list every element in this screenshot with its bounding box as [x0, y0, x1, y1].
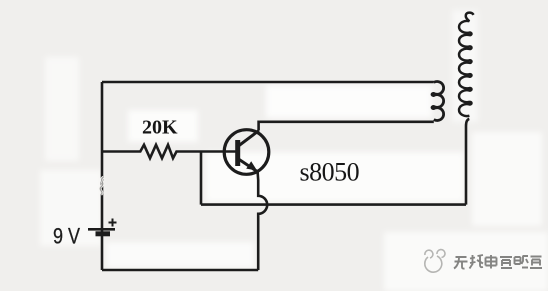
- wire left vertical: [101, 82, 104, 270]
- watermark text 无线电实验室: [454, 255, 542, 269]
- transistor base bar: [235, 140, 240, 166]
- wire base junction vertical: [200, 152, 203, 205]
- wire emitter down with hop: [258, 172, 268, 270]
- wire bottom (battery- to emitter): [102, 269, 258, 272]
- svg-text:9 V: 9 V: [53, 225, 81, 249]
- wire collector to primary bottom: [259, 122, 434, 131]
- wire artifact squiggle on left wire: [100, 177, 103, 195]
- wire feedback right vertical to secondary bottom: [466, 119, 469, 205]
- svg-text:20K: 20K: [142, 117, 178, 139]
- wire feedback horizontal: [201, 203, 466, 206]
- transistor collector lead: [238, 131, 259, 147]
- svg-text:s8050: s8050: [300, 157, 360, 186]
- battery negative plate: [96, 231, 111, 236]
- transistor body circle: [224, 130, 269, 175]
- battery positive plate: [88, 228, 115, 231]
- watermark logo: [425, 250, 445, 273]
- transistor emitter arrow: [246, 161, 257, 170]
- battery B1 9V: [88, 219, 117, 234]
- inductor L1 primary coil: [432, 82, 444, 121]
- transistor Q1 s8050: [224, 130, 269, 175]
- resistor R 20K: [102, 145, 237, 158]
- transistor emitter lead: [238, 159, 258, 172]
- wire top (battery+ to primary top): [102, 81, 434, 84]
- inductor L2 secondary coil: [459, 13, 474, 116]
- battery plus sign: [109, 219, 117, 227]
